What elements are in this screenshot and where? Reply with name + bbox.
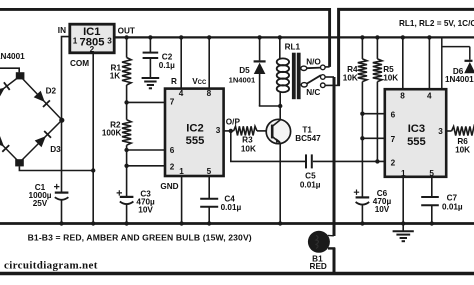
node pin1 ground bbox=[179, 221, 183, 225]
svg-text:3: 3 bbox=[107, 37, 112, 46]
wire IC3 pin 8 to rail bbox=[402, 37, 404, 89]
wire IC1 COM down to ground rail bbox=[92, 53, 94, 224]
svg-text:OUT: OUT bbox=[118, 26, 135, 35]
svg-text:N/O: N/O bbox=[306, 58, 321, 67]
wire R3 to T1 base bbox=[257, 130, 272, 132]
svg-text:6: 6 bbox=[391, 110, 396, 119]
node pin8 rail IC3 bbox=[401, 35, 405, 39]
svg-text:D3: D3 bbox=[50, 145, 61, 154]
node pin4 rail IC3 bbox=[427, 35, 431, 39]
node C4 ground bbox=[207, 221, 211, 225]
node pin1 ground IC3 bbox=[401, 221, 405, 225]
relay contacts bbox=[301, 65, 325, 88]
node pin7 junction bbox=[124, 100, 128, 104]
node bridge AC top corner bbox=[16, 72, 25, 79]
relay RL1 coil bbox=[277, 37, 289, 106]
svg-text:1N4001: 1N4001 bbox=[0, 52, 25, 61]
svg-text:C7: C7 bbox=[447, 194, 458, 203]
resistor R3 bbox=[234, 126, 257, 135]
svg-text:3: 3 bbox=[438, 127, 443, 136]
wire IC3 pin 1 to ground rail bbox=[402, 177, 404, 224]
svg-text:4: 4 bbox=[179, 89, 184, 98]
wire AC input top bbox=[0, 68, 19, 72]
diode D6 bbox=[464, 61, 474, 73]
svg-text:circuitdiagram.net: circuitdiagram.net bbox=[4, 259, 98, 271]
svg-text:1N4001: 1N4001 bbox=[445, 75, 474, 84]
svg-text:10K: 10K bbox=[241, 144, 256, 153]
svg-text:6: 6 bbox=[170, 146, 175, 155]
capacitor C6 electrolytic bbox=[354, 190, 369, 224]
svg-text:5: 5 bbox=[207, 167, 212, 176]
node R5 top bbox=[375, 35, 379, 39]
wire T1 collector up bbox=[279, 106, 281, 120]
node COM ground bbox=[91, 221, 95, 225]
node pin7 junction IC3 bbox=[360, 136, 364, 140]
label C1 1000u 25V bbox=[29, 183, 52, 208]
diode D3 bridge bottom-right bbox=[20, 120, 63, 163]
capacitor C7 bbox=[421, 197, 439, 224]
wire IC2 pin 8 to Vcc rail bbox=[208, 37, 210, 88]
svg-text:BC547: BC547 bbox=[295, 134, 321, 143]
resistor R2 bbox=[122, 120, 131, 146]
wire C5 to IC3 pin 2 bbox=[313, 160, 385, 162]
node O/P junction bbox=[229, 129, 233, 133]
svg-text:555: 555 bbox=[186, 135, 205, 147]
wire to IC2 pin 2 bbox=[127, 165, 165, 167]
node C3 ground bbox=[124, 221, 128, 225]
svg-text:10K: 10K bbox=[343, 74, 358, 83]
label R2 100K bbox=[102, 120, 122, 137]
resistor R4 bbox=[361, 37, 363, 59]
svg-text:B1-B3 = RED, AMBER AND GREEN B: B1-B3 = RED, AMBER AND GREEN BULB (15W, … bbox=[28, 233, 252, 243]
capacitor C3 electrolytic bbox=[117, 190, 134, 223]
label R1 1K bbox=[110, 64, 122, 81]
svg-text:D5: D5 bbox=[239, 66, 250, 75]
svg-text:2: 2 bbox=[391, 158, 396, 167]
wire neutral bottom line bbox=[0, 272, 474, 275]
wire ground rail bbox=[0, 222, 474, 225]
node D5 top on rail bbox=[257, 35, 261, 39]
node pin6 junction IC3 bbox=[360, 112, 364, 116]
svg-text:7: 7 bbox=[391, 135, 396, 144]
svg-text:10V: 10V bbox=[138, 206, 153, 215]
wire relay pole down to bulb B1 bbox=[325, 77, 334, 273]
label R4 10K bbox=[343, 65, 358, 82]
svg-text:RL1, RL2 = 5V, 1C/O RELAY: RL1, RL2 = 5V, 1C/O RELAY bbox=[399, 19, 474, 28]
svg-text:R: R bbox=[171, 77, 177, 86]
svg-text:10K: 10K bbox=[455, 146, 470, 155]
wire bridge - to COM line bbox=[19, 166, 93, 170]
node pin2 junction IC3 / R5 bbox=[375, 159, 379, 163]
label R6 10K bbox=[455, 137, 470, 155]
node bridge AC bottom corner bbox=[15, 159, 24, 166]
svg-text:D2: D2 bbox=[46, 87, 57, 96]
wire R1 to R2 bbox=[126, 85, 128, 120]
svg-text:3: 3 bbox=[216, 126, 221, 135]
svg-text:25V: 25V bbox=[33, 199, 48, 208]
node emitter ground bbox=[278, 221, 282, 225]
svg-text:IC2: IC2 bbox=[186, 123, 203, 135]
label R3 10K bbox=[241, 136, 256, 154]
wire IC3 pin 3 to R6 bbox=[446, 130, 451, 132]
svg-text:555: 555 bbox=[407, 136, 426, 148]
label B1 RED bbox=[310, 255, 327, 272]
node bridge + output corner bbox=[59, 118, 64, 123]
svg-text:10K: 10K bbox=[383, 74, 398, 83]
wire to IC2 pin 7 bbox=[127, 101, 165, 103]
svg-text:GND: GND bbox=[160, 182, 178, 191]
node pin6 junction bbox=[124, 148, 128, 152]
node C7 ground bbox=[430, 221, 434, 225]
svg-text:1: 1 bbox=[73, 37, 78, 46]
capacitor C5 bbox=[306, 154, 312, 168]
svg-text:RL1: RL1 bbox=[285, 42, 301, 51]
wire IC3 pin 4 to rail bbox=[428, 37, 430, 89]
transistor T1 BC547 bbox=[266, 119, 290, 143]
node C2 top bbox=[148, 35, 152, 39]
svg-text:4: 4 bbox=[427, 92, 432, 101]
node pin2 junction bbox=[124, 164, 128, 168]
wire mains top-right to relay N/C bbox=[325, 9, 474, 85]
capacitor C1 electrolytic bbox=[54, 184, 68, 224]
svg-text:0.01µ: 0.01µ bbox=[442, 202, 463, 211]
svg-text:10V: 10V bbox=[375, 205, 390, 214]
wire T1 emitter to ground rail bbox=[279, 143, 281, 223]
svg-text:1: 1 bbox=[179, 167, 184, 176]
bulb B1 bbox=[308, 231, 335, 253]
wire to IC3 pin 6 bbox=[362, 113, 384, 115]
svg-text:O/P: O/P bbox=[226, 118, 241, 127]
svg-text:1K: 1K bbox=[110, 72, 121, 81]
node relay coil top on rail bbox=[278, 35, 282, 39]
ground symbol C2 bbox=[142, 78, 160, 88]
wire IC2 pin 4 to Vcc rail bbox=[180, 37, 182, 88]
wire to IC2 pin 6 bbox=[127, 149, 165, 151]
wire bridge + down to C1 bbox=[61, 120, 63, 192]
svg-text:N/C: N/C bbox=[306, 88, 320, 97]
op-amp timer IC3 555 bbox=[385, 89, 446, 177]
svg-text:0.01µ: 0.01µ bbox=[300, 180, 321, 189]
wire IC3 pin 5 down bbox=[431, 177, 433, 196]
svg-text:R3: R3 bbox=[242, 136, 253, 145]
ground symbol main bbox=[393, 224, 414, 242]
node C6 ground bbox=[360, 221, 364, 225]
capacitor C4 bbox=[200, 199, 218, 224]
node R4 top bbox=[360, 35, 364, 39]
wire bridge + up to IC1 IN bbox=[62, 37, 70, 121]
regulator IC1 7805 bbox=[70, 24, 114, 53]
node pin4 rail bbox=[179, 35, 183, 39]
svg-text:1N4001: 1N4001 bbox=[229, 76, 256, 85]
wire IC2 pin 1 to ground rail bbox=[181, 176, 183, 224]
label C5 0.01u bbox=[300, 171, 321, 189]
node C1 ground bbox=[59, 221, 63, 225]
diode D4 bridge bottom-left (cut) bbox=[0, 136, 20, 163]
svg-text:C5: C5 bbox=[305, 171, 316, 180]
relay core bars bbox=[292, 53, 296, 99]
svg-text:100K: 100K bbox=[102, 128, 122, 137]
resistor R6 bbox=[452, 126, 474, 135]
svg-text:2: 2 bbox=[170, 163, 175, 172]
diode D2 bridge top-right bbox=[20, 76, 62, 120]
node COM / bridge junction bbox=[91, 168, 95, 172]
diode D5 bbox=[254, 37, 266, 106]
label C6 470u 10V bbox=[373, 189, 392, 214]
resistor R1 bbox=[126, 37, 128, 57]
diode D1 bridge top-left (cut) bbox=[0, 76, 20, 98]
svg-text:IN: IN bbox=[58, 26, 66, 35]
wire O/P node down to C5 bbox=[231, 131, 305, 162]
wire D6 branch bbox=[442, 37, 470, 89]
svg-text:8: 8 bbox=[400, 92, 405, 101]
svg-text:COM: COM bbox=[70, 59, 89, 68]
wire mains phase top-left to relay N/O bbox=[0, 9, 330, 67]
op-amp timer IC2 555 bbox=[165, 89, 224, 176]
wire IC2 pin 5 down bbox=[208, 176, 210, 198]
node R1 top on Vcc rail bbox=[124, 35, 128, 39]
resistor R5 bbox=[376, 37, 378, 59]
wire IC2 pin 3 output bbox=[224, 130, 234, 132]
svg-text:IC3: IC3 bbox=[408, 123, 425, 135]
wire Vcc rail bbox=[114, 36, 474, 38]
svg-text:T1: T1 bbox=[302, 125, 312, 134]
svg-text:0.01µ: 0.01µ bbox=[221, 203, 242, 212]
svg-text:RED: RED bbox=[310, 262, 327, 271]
wire R2 to C3 bbox=[126, 145, 128, 196]
svg-text:7: 7 bbox=[170, 98, 175, 107]
svg-text:8: 8 bbox=[207, 89, 212, 98]
capacitor C2 bbox=[143, 37, 159, 77]
wire to IC3 pin 7 bbox=[362, 137, 384, 139]
node pin8 rail bbox=[207, 35, 211, 39]
wire D5 bottom to collector node bbox=[259, 105, 280, 107]
node collector / D5 / coil junction bbox=[278, 104, 282, 108]
svg-text:0.1µ: 0.1µ bbox=[159, 61, 175, 70]
label C3 470u 10V bbox=[136, 190, 155, 215]
